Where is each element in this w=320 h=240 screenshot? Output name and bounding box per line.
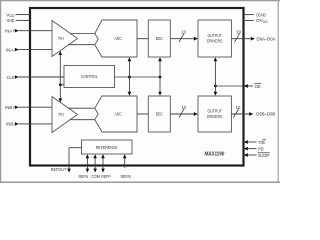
wire DEC A to output drivers A (10-bit bus) [170, 30, 198, 43]
pin OE (output enable) [244, 84, 261, 89]
pin REFN [79, 154, 90, 179]
arrow clock into ADC A [128, 57, 132, 61]
pin D9B-D0B (10-bit out) [231, 105, 275, 117]
pin T/B [244, 140, 266, 145]
pin CLK [7, 75, 64, 80]
node clock T/H junction [59, 83, 62, 86]
T/H amplifier B [52, 97, 78, 133]
svg-text:D9B–D0B: D9B–D0B [256, 112, 275, 117]
pin GND [7, 18, 31, 23]
arrow clock into DEC B [158, 92, 162, 96]
svg-text:REFOUT: REFOUT [51, 167, 67, 172]
wire T/H A diff out bottom [69, 44, 95, 46]
frame right [277, 0, 279, 182]
svg-text:10: 10 [236, 105, 241, 110]
wire ADC B to DEC B [137, 113, 148, 115]
svg-text:DEC: DEC [156, 112, 164, 117]
svg-text:PD: PD [258, 146, 264, 151]
wire T/H B diff out top [69, 107, 95, 109]
pin INA- [6, 47, 52, 52]
pin INB- [6, 122, 52, 127]
node OE junction [214, 85, 217, 88]
pin VDD [6, 12, 30, 18]
wire OE vertical drivers A / B [214, 61, 216, 92]
pin OGND [244, 12, 267, 17]
arrow clock into DEC A [158, 57, 162, 61]
output drivers B [198, 96, 231, 132]
arrow clock into T/H B [59, 98, 63, 102]
svg-text:OGND: OGND [256, 12, 266, 17]
svg-text:ADC: ADC [115, 112, 123, 117]
pin INB+ [5, 105, 52, 110]
DEC A [148, 20, 170, 57]
ADC B [95, 96, 137, 132]
pin REFP [101, 154, 110, 179]
pin REFOUT [51, 148, 82, 173]
arrow OE into output drivers B [214, 92, 218, 96]
svg-text:VDD: VDD [6, 12, 15, 18]
svg-text:REFERENCE: REFERENCE [96, 145, 118, 150]
ADC A [95, 20, 137, 57]
svg-text:SLEEP: SLEEP [258, 153, 270, 158]
pin SLEEP [244, 153, 270, 158]
pin REFIN [121, 154, 131, 179]
svg-text:COM: COM [91, 174, 100, 179]
wire CONTROL clock to ADC/DEC [115, 76, 161, 78]
wire ADC A to DEC A [137, 38, 148, 40]
wire T/H B diff out bottom [70, 119, 95, 121]
svg-text:T/H: T/H [58, 36, 64, 41]
svg-text:T/H: T/H [58, 112, 64, 117]
output drivers A [198, 20, 231, 57]
wire DEC B to output drivers B (10-bit bus) [170, 105, 198, 118]
svg-text:INB-: INB- [6, 122, 15, 127]
svg-text:OVDD: OVDD [256, 18, 268, 24]
wire clock vertical DEC A / DEC B [159, 61, 161, 92]
svg-text:T/B: T/B [258, 140, 265, 145]
T/H amplifier A [52, 21, 78, 57]
svg-text:OUTPUT: OUTPUT [207, 33, 222, 38]
svg-text:10: 10 [181, 30, 186, 35]
svg-text:CONTROL: CONTROL [81, 74, 98, 79]
wire OE to output drivers [215, 85, 243, 87]
arrow clock into ADC B [128, 92, 132, 96]
svg-text:DEC: DEC [156, 36, 164, 41]
wire clock vertical to T/H A and T/H B [59, 55, 61, 99]
svg-text:GND: GND [7, 18, 15, 23]
svg-text:INA-: INA- [6, 47, 15, 52]
svg-text:DRIVERS: DRIVERS [207, 39, 223, 44]
node clock DEC junction [159, 76, 162, 79]
svg-text:D9A–D0A: D9A–D0A [257, 36, 277, 41]
pin PD [244, 146, 264, 151]
arrow clock into T/H A [59, 51, 63, 55]
svg-text:ADC: ADC [115, 36, 123, 41]
svg-text:INB+: INB+ [5, 105, 15, 110]
frame top [0, 0, 280, 2]
svg-text:REFP: REFP [101, 174, 110, 179]
IC boundary box MAX1190 [30, 8, 244, 166]
CONTROL block [64, 66, 115, 88]
pin OVDD [244, 18, 269, 24]
svg-text:10: 10 [236, 30, 241, 35]
wire clock vertical ADC A / ADC B [128, 61, 130, 92]
pin COM [91, 154, 100, 179]
svg-text:MAX1190: MAX1190 [205, 151, 225, 157]
svg-text:REFIN: REFIN [121, 174, 131, 179]
svg-text:REFN: REFN [79, 174, 89, 179]
svg-text:DRIVERS: DRIVERS [207, 114, 223, 119]
svg-text:OUTPUT: OUTPUT [207, 108, 222, 113]
node clock ADC junction [128, 76, 131, 79]
svg-text:10: 10 [182, 105, 187, 110]
DEC B [148, 96, 170, 132]
pin D9A-D0A (10-bit out) [231, 30, 276, 43]
frame bottom [0, 181, 280, 183]
wire T/H A diff out top [70, 33, 95, 35]
wire CONTROL clock to T/H amps [60, 84, 64, 86]
REFERENCE block [82, 140, 133, 154]
pin INA+ [5, 29, 52, 34]
svg-text:INA+: INA+ [5, 29, 15, 34]
arrow OE into output drivers A [214, 57, 218, 61]
svg-text:CLK: CLK [7, 75, 16, 80]
frame left [0, 0, 2, 183]
svg-text:OE: OE [255, 84, 261, 89]
